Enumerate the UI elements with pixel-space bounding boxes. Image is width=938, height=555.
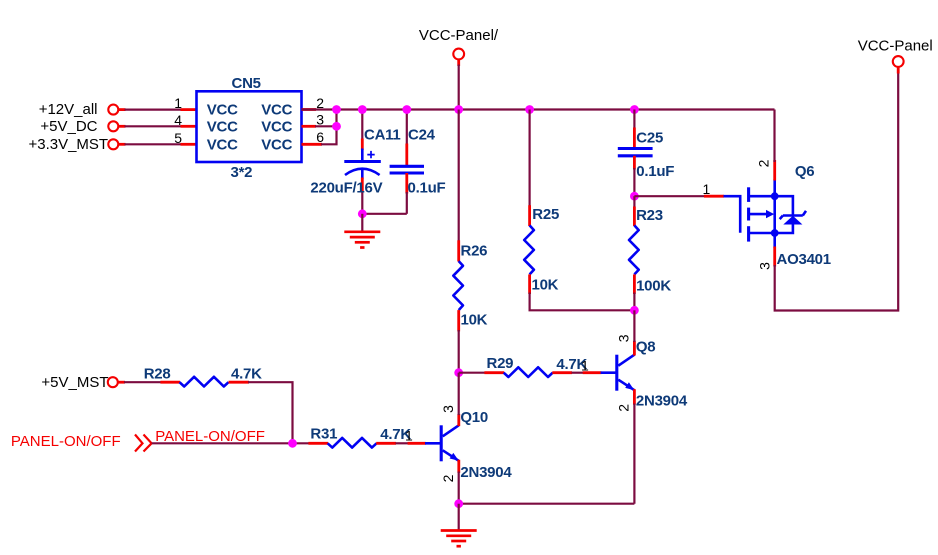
svg-text:10K: 10K bbox=[532, 277, 559, 294]
svg-text:VCC-Panel/: VCC-Panel/ bbox=[419, 27, 499, 44]
junction pin3 bbox=[332, 122, 341, 131]
port chevron PANEL-ON/OFF bbox=[135, 435, 152, 452]
wire R23 bottom to node B bbox=[633, 293, 635, 311]
svg-text:VCC: VCC bbox=[207, 136, 238, 153]
svg-text:1: 1 bbox=[174, 95, 182, 111]
svg-text:+12V_all: +12V_all bbox=[39, 101, 98, 118]
wire +5V_DC to CN5 pin 4 bbox=[125, 125, 185, 127]
junction CA11/C24 ground node bbox=[358, 209, 367, 218]
pin 4 stub CN5 bbox=[181, 125, 197, 128]
svg-text:PANEL-ON/OFF: PANEL-ON/OFF bbox=[11, 433, 121, 450]
wire +12V_all to CN5 pin 1 bbox=[125, 108, 185, 110]
terminal circle +3.3V_MST bbox=[108, 139, 118, 149]
pin 3 stub CN5 bbox=[302, 125, 317, 128]
wire rail corner down to Q6 pin 2 bbox=[773, 110, 775, 163]
wire emitter bus bbox=[459, 503, 635, 505]
terminal circle +5V_MST bbox=[108, 377, 118, 387]
wire C24 bottom to CA11 bottom bbox=[362, 213, 407, 215]
resistor R25 bbox=[524, 205, 559, 294]
wire R25 bottom to node B bbox=[530, 293, 635, 311]
wire gate node to Q6 pin 1 bbox=[634, 195, 705, 197]
svg-text:6: 6 bbox=[316, 129, 324, 145]
pin 1 stub Q10 base bbox=[408, 442, 426, 445]
junction R28/PANEL-ON/OFF bbox=[288, 439, 297, 448]
svg-text:+5V_DC: +5V_DC bbox=[40, 118, 97, 135]
wire R29 to Q8 base bbox=[572, 372, 584, 374]
junction rail R25 bbox=[525, 105, 534, 114]
svg-text:4: 4 bbox=[174, 112, 182, 128]
svg-text:3: 3 bbox=[616, 334, 632, 342]
junction rail/pin3 vertical bbox=[332, 105, 341, 114]
wire +3.3V_MST to CN5 pin 5 bbox=[125, 143, 185, 145]
wire R31 to Q10 base bbox=[396, 442, 409, 444]
wire node A to Q10 collector bbox=[458, 373, 460, 415]
power port VCC-Panel/ bbox=[419, 27, 499, 110]
wire node A to R29 bbox=[459, 372, 486, 374]
connector CN5 bbox=[197, 75, 302, 181]
junction rail CA11 bbox=[358, 105, 367, 114]
power port VCC-Panel bbox=[858, 38, 933, 67]
svg-text:3: 3 bbox=[316, 112, 324, 128]
svg-text:C25: C25 bbox=[636, 130, 663, 147]
svg-text:CN5: CN5 bbox=[232, 75, 261, 92]
junction node A R26/R29/Q10 collector bbox=[454, 368, 463, 377]
svg-text:Q10: Q10 bbox=[460, 409, 488, 426]
svg-text:2N3904: 2N3904 bbox=[460, 464, 512, 481]
wire rail to R25 bbox=[528, 110, 530, 207]
wire node B to Q8 collector bbox=[633, 310, 635, 342]
svg-text:Q6: Q6 bbox=[795, 163, 815, 180]
svg-text:R26: R26 bbox=[461, 243, 488, 260]
svg-text:VCC: VCC bbox=[207, 119, 238, 136]
svg-text:1: 1 bbox=[581, 357, 589, 373]
resistor R28 bbox=[144, 365, 262, 386]
svg-text:1: 1 bbox=[405, 427, 413, 443]
ground GND2 bbox=[441, 531, 477, 547]
capacitor C25 bbox=[618, 128, 675, 197]
svg-text:AO3401: AO3401 bbox=[777, 251, 831, 268]
transistor Q10 NPN bbox=[425, 405, 512, 483]
svg-text:2N3904: 2N3904 bbox=[636, 393, 688, 410]
svg-text:R28: R28 bbox=[144, 365, 171, 382]
junction rail C25 bbox=[630, 105, 639, 114]
wire pin 3 to vertical bbox=[315, 125, 337, 127]
svg-text:VCC: VCC bbox=[261, 119, 292, 136]
capacitor CA11 bbox=[310, 110, 400, 214]
junction rail C24 bbox=[402, 105, 411, 114]
svg-text:100K: 100K bbox=[636, 278, 671, 295]
wire rail to R26 bbox=[458, 110, 460, 242]
svg-text:CA11: CA11 bbox=[364, 127, 401, 144]
wire Q6 pin 3 to VCC-Panel port bbox=[775, 72, 899, 311]
wire R28 to junction on PANEL-ON/OFF line bbox=[248, 382, 293, 443]
pin 1 stub CN5 bbox=[181, 108, 197, 111]
svg-text:2: 2 bbox=[440, 474, 456, 482]
transistor Q8 NPN bbox=[601, 334, 688, 412]
svg-text:R31: R31 bbox=[310, 426, 337, 443]
svg-text:1: 1 bbox=[703, 181, 711, 197]
svg-text:Q8: Q8 bbox=[636, 339, 656, 356]
svg-text:5: 5 bbox=[174, 130, 182, 146]
resistor R31 bbox=[308, 426, 411, 448]
svg-text:4.7K: 4.7K bbox=[231, 365, 262, 382]
junction node B R25/R23/Q8 collector bbox=[630, 306, 639, 315]
resistor R26 bbox=[453, 240, 487, 331]
svg-text:0.1uF: 0.1uF bbox=[636, 163, 674, 180]
svg-text:3: 3 bbox=[440, 405, 456, 413]
svg-text:3: 3 bbox=[757, 262, 773, 270]
svg-text:R23: R23 bbox=[636, 207, 663, 224]
junction C25/R23/gate node bbox=[630, 192, 639, 201]
wire rail to C25 bbox=[633, 110, 635, 130]
wire Q10 emitter down bbox=[458, 472, 460, 504]
terminal circle +12V_all bbox=[108, 105, 118, 115]
wire PANEL-ON/OFF to R31 bbox=[152, 442, 310, 444]
svg-text:C24: C24 bbox=[408, 127, 436, 144]
terminal circle +5V_DC bbox=[108, 121, 118, 131]
svg-text:VCC: VCC bbox=[261, 102, 292, 119]
svg-text:R25: R25 bbox=[532, 206, 559, 223]
svg-text:2: 2 bbox=[616, 404, 632, 412]
wire +5V_MST to R28 bbox=[124, 381, 162, 383]
transistor Q6 P-MOSFET bbox=[724, 159, 831, 270]
capacitor C24 bbox=[390, 110, 446, 214]
svg-text:+3.3V_MST: +3.3V_MST bbox=[28, 136, 108, 153]
wire Q8 emitter down bbox=[633, 404, 635, 504]
wire main VCC rail bbox=[302, 108, 775, 110]
svg-text:0.1uF: 0.1uF bbox=[408, 180, 446, 197]
svg-text:VCC-Panel: VCC-Panel bbox=[858, 38, 933, 55]
ground GND1 bbox=[344, 232, 380, 248]
pin 6 stub CN5 bbox=[302, 143, 323, 146]
svg-text:VCC: VCC bbox=[207, 102, 238, 119]
svg-text:3*2: 3*2 bbox=[231, 164, 253, 181]
svg-text:+5V_MST: +5V_MST bbox=[41, 374, 108, 391]
svg-text:10K: 10K bbox=[461, 312, 488, 329]
pin 1 stub Q8 base bbox=[583, 371, 602, 374]
wire to ground 2 bbox=[458, 504, 460, 530]
svg-text:VCC: VCC bbox=[261, 136, 292, 153]
resistor R23 bbox=[629, 196, 671, 295]
wire R26 to node A bbox=[458, 330, 460, 373]
wire pin 6 to vertical and up to rail bbox=[321, 110, 337, 145]
resistor R29 bbox=[484, 355, 587, 377]
junction emitters/ground bbox=[454, 499, 463, 508]
junction rail VCC-Panel//R26 bbox=[454, 105, 463, 114]
pin 2 stub CN5 bbox=[302, 108, 317, 111]
svg-text:2: 2 bbox=[756, 159, 772, 167]
pin 5 stub CN5 bbox=[181, 143, 197, 146]
svg-text:220uF/16V: 220uF/16V bbox=[310, 180, 382, 197]
svg-text:R29: R29 bbox=[487, 355, 514, 372]
wire to ground 1 bbox=[361, 214, 363, 231]
pin 1 stub Q6 bbox=[704, 195, 724, 198]
